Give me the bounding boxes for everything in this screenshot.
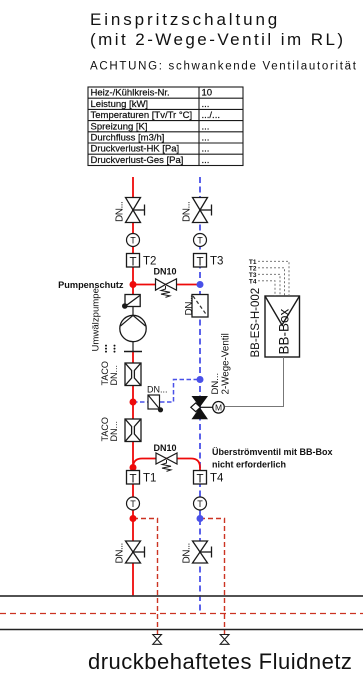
regulating valve on return (rect with dashed diagonal) [192,295,208,318]
svg-text:T: T [196,257,203,269]
sensor well T1 [127,471,157,486]
svg-text:T: T [129,474,136,486]
wire: red dashed drop right [200,519,225,635]
bottom network line 1 [0,595,363,597]
node: junction left (red dot) [130,515,137,522]
2-way valve (filled) [191,396,213,419]
svg-text:Durchfluss [m3/h]: Durchfluss [m3/h] [91,133,165,144]
bottom network line 2 [0,629,363,631]
svg-text:...: ... [202,99,210,110]
svg-text:DN...: DN... [184,295,195,315]
shutoff valve bottom-left DN... [126,541,145,563]
svg-text:2-Wege-Ventil: 2-Wege-Ventil [221,333,232,394]
svg-text:M: M [215,403,222,413]
pump flange bar [124,351,142,353]
svg-text:T: T [197,499,203,509]
svg-text:Druckverlust-Ges [Pa]: Druckverlust-Ges [Pa] [91,155,184,166]
svg-text:T: T [129,257,136,269]
wire: Pumpenschutz bypass (red horizontal) [133,284,200,286]
node: junction supply/control (red dot) [130,399,137,406]
table text [91,88,220,166]
differential pressure sensor box [148,395,163,412]
pump controller box [122,295,140,309]
sensor well T2 [127,254,157,269]
motor actuator M [213,402,225,414]
svg-text:Leistung [kW]: Leistung [kW] [91,99,149,110]
wire: return pipe (blue dashed, right, x=200) [199,177,201,613]
shutoff valve top-right DN... [193,198,212,223]
balancing valve TACO 2 [125,419,141,442]
svg-text:...: ... [202,155,210,166]
svg-text:10: 10 [202,88,213,99]
thermometer circle right bottom [194,497,207,510]
svg-text:Umwälzpumpe: Umwälzpumpe [91,288,102,351]
svg-text:DN...: DN... [210,373,221,395]
svg-text:T: T [130,236,136,246]
svg-text:DN...: DN... [182,543,193,563]
connection symbol left (hourglass) [153,635,162,645]
svg-text:Heiz-/Kühlkreis-Nr.: Heiz-/Kühlkreis-Nr. [91,88,170,99]
data table frame [88,87,243,166]
svg-text:Überströmventil mit BB-Box: Überströmventil mit BB-Box [212,447,333,457]
svg-text:T4: T4 [249,278,257,285]
svg-text:T3: T3 [210,256,223,268]
svg-text:Druckverlust-HK [Pa]: Druckverlust-HK [Pa] [91,144,180,155]
svg-text:T: T [196,474,203,486]
svg-text:DN...: DN... [147,385,168,395]
node: junction right (blue dot) [197,515,204,522]
connection symbol right (hourglass) [220,635,229,645]
node: junction return/bypass (blue dot) [197,281,204,288]
svg-text:BB-Box: BB-Box [277,308,292,354]
shutoff valve top-left DN... [126,198,145,223]
svg-text:T: T [130,499,136,509]
svg-text:...: ... [202,144,210,155]
svg-text:DN...: DN... [115,202,126,222]
svg-text:BB-ES-H-002: BB-ES-H-002 [250,288,262,358]
wire: red dashed drop left [133,519,158,635]
svg-text:ACHTUNG: schwankende Ventilaut: ACHTUNG: schwankende Ventilautorität [90,61,358,73]
svg-text:DN...: DN... [109,421,119,442]
BB-Box [265,296,300,357]
svg-text:T: T [197,236,203,246]
svg-text:nicht erforderlich: nicht erforderlich [212,460,286,470]
svg-text:Temperaturen [Tv/Tr °C]: Temperaturen [Tv/Tr °C] [91,110,193,121]
thermometer circle left bottom [127,497,140,510]
svg-text:DN...: DN... [182,202,193,222]
thermometer circle left top [127,234,140,247]
svg-text:T1: T1 [143,473,156,485]
svg-text:DN...: DN... [109,365,119,386]
bottom network red dashed return [0,613,363,615]
node: junction supply/overflow (red dot) [130,464,137,471]
svg-text:druckbehaftetes Fluidnetz: druckbehaftetes Fluidnetz [88,649,352,674]
wire: blue dashed control line from supply junction to 2-way valve [133,380,200,403]
wire: black stubs around pump [132,307,134,317]
svg-text:DN...: DN... [115,543,126,563]
label Umwaelzpumpe [91,288,102,351]
svg-text:DN10: DN10 [154,267,177,277]
sensor leads T1-T4 to BB-Box [258,261,289,296]
overflow valve DN10 (pump protection) [156,279,177,298]
svg-text:Einspritzschaltung: Einspritzschaltung [90,10,280,29]
wire: supply pipe (red, left, x=133) [132,177,134,596]
svg-text:T4: T4 [210,473,224,485]
sensor well T4 [194,471,225,486]
svg-text:Spreizung [K]: Spreizung [K] [91,121,148,132]
balancing valve TACO 1 [125,363,141,386]
svg-text:(mit 2-Wege-Ventil im RL): (mit 2-Wege-Ventil im RL) [90,30,346,49]
node: junction return/control (blue dot) [197,376,204,383]
wire: control line BB-Box to motor [225,357,284,407]
node: junction supply/bypass (red dot) [130,281,137,288]
svg-text:...: ... [202,121,210,132]
svg-text:DN10: DN10 [154,443,177,453]
shutoff valve bottom-right DN... [193,541,212,563]
pump Umwaelzpumpe [120,315,146,341]
label BB-ES-H-002 [250,288,262,358]
svg-text:...: ... [202,133,210,144]
svg-text:.../...: .../... [202,110,220,121]
overflow valve DN10 (Ueberstroemventil) [156,453,177,471]
thermometer circle right top [194,234,207,247]
wire: Ueberstroemventil bypass (red with rounded elbows) [133,459,200,471]
sensor well T3 [194,254,224,269]
